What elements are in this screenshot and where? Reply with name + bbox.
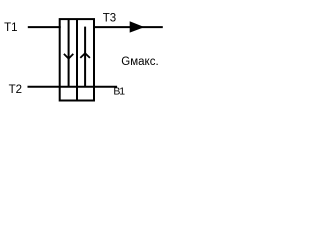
svg-text:T2: T2 (9, 84, 22, 96)
flow direction arrow on T3 pipe (130, 21, 145, 32)
svg-text:T3: T3 (103, 13, 116, 25)
svg-text:T1: T1 (4, 22, 17, 34)
flow arrow down on left tube (64, 54, 73, 59)
svg-text:Gмакс.: Gмакс. (121, 56, 158, 68)
wire T2 to B1 (bottom pipe through body) (28, 86, 118, 88)
heat exchanger body (outer shell) (60, 19, 94, 100)
wire T1 (inlet pipe, top left) (28, 26, 61, 28)
right tube (up pass) (84, 27, 86, 87)
svg-text:B1: B1 (113, 86, 125, 98)
flow arrow up on right tube (80, 53, 90, 58)
middle partition wall (76, 19, 78, 100)
wire T3 (outlet pipe, top right) (93, 26, 163, 28)
left tube (down pass) (68, 19, 70, 87)
